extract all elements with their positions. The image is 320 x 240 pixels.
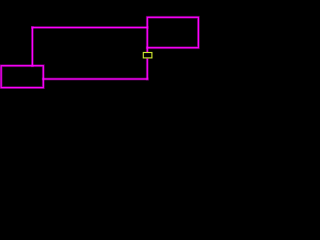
- component block U1: [1, 66, 43, 88]
- wire W2 top horizontal net: [32, 26, 147, 29]
- wire W4a right vertical net (block U2 to pin marker): [146, 48, 149, 52]
- wire W1 left vertical net: [31, 28, 34, 66]
- component block U2: [147, 17, 198, 47]
- pin marker (yellow selection square): [143, 53, 152, 58]
- wire W4b right vertical net (pin marker to bottom wire): [146, 59, 149, 79]
- wire W3 bottom horizontal net: [43, 78, 147, 81]
